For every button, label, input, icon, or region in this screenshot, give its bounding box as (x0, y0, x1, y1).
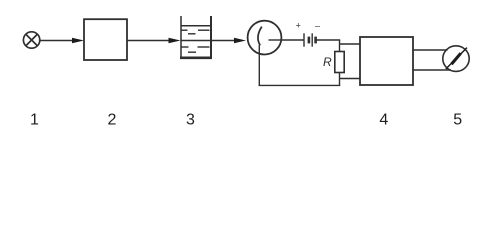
meter needle (446, 48, 467, 69)
svg-text:4: 4 (379, 111, 388, 128)
resistor bottom lead (339, 73, 341, 87)
phototube 4 envelope (248, 21, 282, 55)
meter bottom connection line (413, 69, 451, 71)
wire battery to node (315, 39, 340, 41)
node vertical down to resistor top (339, 40, 341, 52)
wire lamp to block2 (40, 40, 74, 42)
wire block2 to cuvette (127, 40, 170, 42)
cuvette (sample cell) 3 (180, 16, 212, 59)
phototube cathode arc (258, 27, 262, 46)
svg-text:3: 3 (186, 111, 195, 128)
phototube anode line (269, 39, 282, 41)
lamp (light source) 1 (23, 32, 39, 48)
liquid surface line (182, 25, 211, 27)
bottom (180, 56, 212, 59)
meter needle thick middle (450, 52, 461, 65)
liquid center dash y52 (188, 51, 196, 53)
amplifier lower input wire (340, 78, 361, 80)
svg-text:5: 5 (453, 111, 462, 128)
liquid center dash y33.5 (188, 33, 196, 35)
meter top connection line (413, 49, 448, 51)
svg-text:2: 2 (108, 111, 117, 128)
svg-text:R: R (323, 55, 332, 69)
amplifier upper input wire (340, 43, 361, 45)
arrowhead into phototube (234, 38, 246, 44)
svg-text:+: + (296, 21, 301, 31)
liquid dashes row y47 (182, 46, 210, 48)
resistor R (335, 52, 344, 73)
beam line through cuvette (181, 40, 211, 42)
block 2 (monochromator) (84, 19, 127, 60)
svg-text:–: – (315, 21, 320, 31)
wire cuvette to phototube (211, 40, 235, 42)
phototube cathode lead down (258, 45, 260, 86)
arrowhead into cuvette (169, 38, 181, 44)
arrowhead into block2 (72, 38, 84, 44)
svg-text:1: 1 (30, 111, 39, 128)
bottom return wire (259, 84, 341, 86)
liquid dashes row y30 (182, 29, 210, 31)
left wall (180, 16, 182, 59)
meter (galvanometer) 5 (443, 46, 469, 72)
block 4 (amplifier) (360, 37, 413, 85)
battery plates (304, 33, 316, 46)
right wall (210, 16, 212, 59)
wire anode to battery (282, 39, 304, 41)
